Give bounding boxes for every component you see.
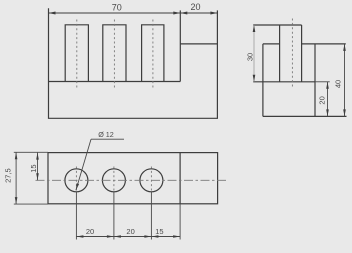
arrowheads of 40 dimension [343, 44, 346, 117]
front view tab 1 [65, 25, 88, 82]
arrowheads of 30 dimension [253, 25, 256, 82]
front view right block top edge [180, 43, 217, 45]
svg-text:15: 15 [155, 227, 163, 236]
leader line and underline for diameter 12 label [76, 139, 124, 190]
svg-text:Ø 12: Ø 12 [98, 130, 114, 139]
svg-text:20: 20 [86, 227, 94, 236]
extension line below hole 1 [75, 192, 77, 240]
side view upright left edge [279, 25, 281, 82]
svg-text:30: 30 [246, 53, 255, 61]
bottom dimension line (20 20 15 chain) [76, 236, 180, 238]
front view tab 1 centerline [76, 20, 78, 88]
side view vertical centerline [291, 19, 293, 88]
hole 1 vertical centerline [75, 167, 77, 192]
front view tab 2 [103, 25, 126, 82]
dimension line 30 (side view left) [253, 25, 255, 82]
svg-text:40: 40 [334, 80, 343, 88]
dimension line 40 (side view total height) [344, 44, 346, 117]
arrowheads of 20 dimension (side view) [326, 82, 329, 117]
front view base top edge [49, 81, 181, 83]
svg-text:20: 20 [190, 2, 200, 12]
side view base bottom edge with extension to 40 dimension [263, 115, 347, 117]
hole 1 circle [65, 169, 88, 192]
side view right shoulder edge with extension to 40 dimension [302, 43, 346, 45]
leader arrowhead at hole 1 [76, 183, 79, 190]
hole 2 vertical centerline [113, 167, 115, 192]
top view horizontal centerline [36, 179, 228, 181]
dimension line 15 (top view left, edge to hole axis) [37, 153, 39, 181]
side view right edge [314, 44, 316, 117]
dimension line for 70 and 20 (top) [49, 12, 218, 14]
hole 3 vertical centerline [150, 167, 152, 192]
extension line below inner edge [179, 204, 181, 240]
top view inner vertical edge (right block boundary) [179, 153, 181, 204]
arrowheads of top dimensions [49, 12, 218, 15]
front view tab 2 centerline [113, 20, 115, 88]
hole 3 circle [140, 169, 163, 192]
front view outline (left edge with extension, bottom edge, right edge with extension) [49, 8, 218, 118]
svg-text:20: 20 [126, 227, 134, 236]
arrowheads of bottom dimension chain [76, 235, 180, 238]
side view left shoulder edge [263, 43, 280, 45]
hole 2 circle [102, 169, 125, 192]
dimension line 27.5 with extension lines (top view left) [14, 152, 48, 204]
extension line for 20 dimension (side view) [315, 81, 330, 83]
front view right block left edge with extension to dimension line [179, 10, 181, 81]
svg-text:27,5: 27,5 [4, 168, 13, 183]
side view left edge [262, 44, 264, 117]
top view rectangle outline [48, 153, 218, 204]
svg-text:70: 70 [112, 3, 122, 13]
arrowheads of 15 dimension [36, 153, 39, 181]
side view base top edge with extension to 30 dimension [253, 81, 315, 83]
svg-text:15: 15 [29, 164, 38, 172]
extension line below hole 2 [113, 192, 115, 240]
front view tab 3 [142, 25, 164, 82]
front view tab 3 centerline [152, 20, 154, 88]
svg-text:20: 20 [317, 96, 326, 104]
extension line below hole 3 [150, 192, 152, 240]
dimension line 20 (side view base height) [327, 82, 329, 117]
side view upright right edge [301, 25, 303, 82]
arrowheads of 27.5 dimension [15, 152, 18, 204]
side view top edge with extension to 30 dimension [253, 24, 301, 26]
